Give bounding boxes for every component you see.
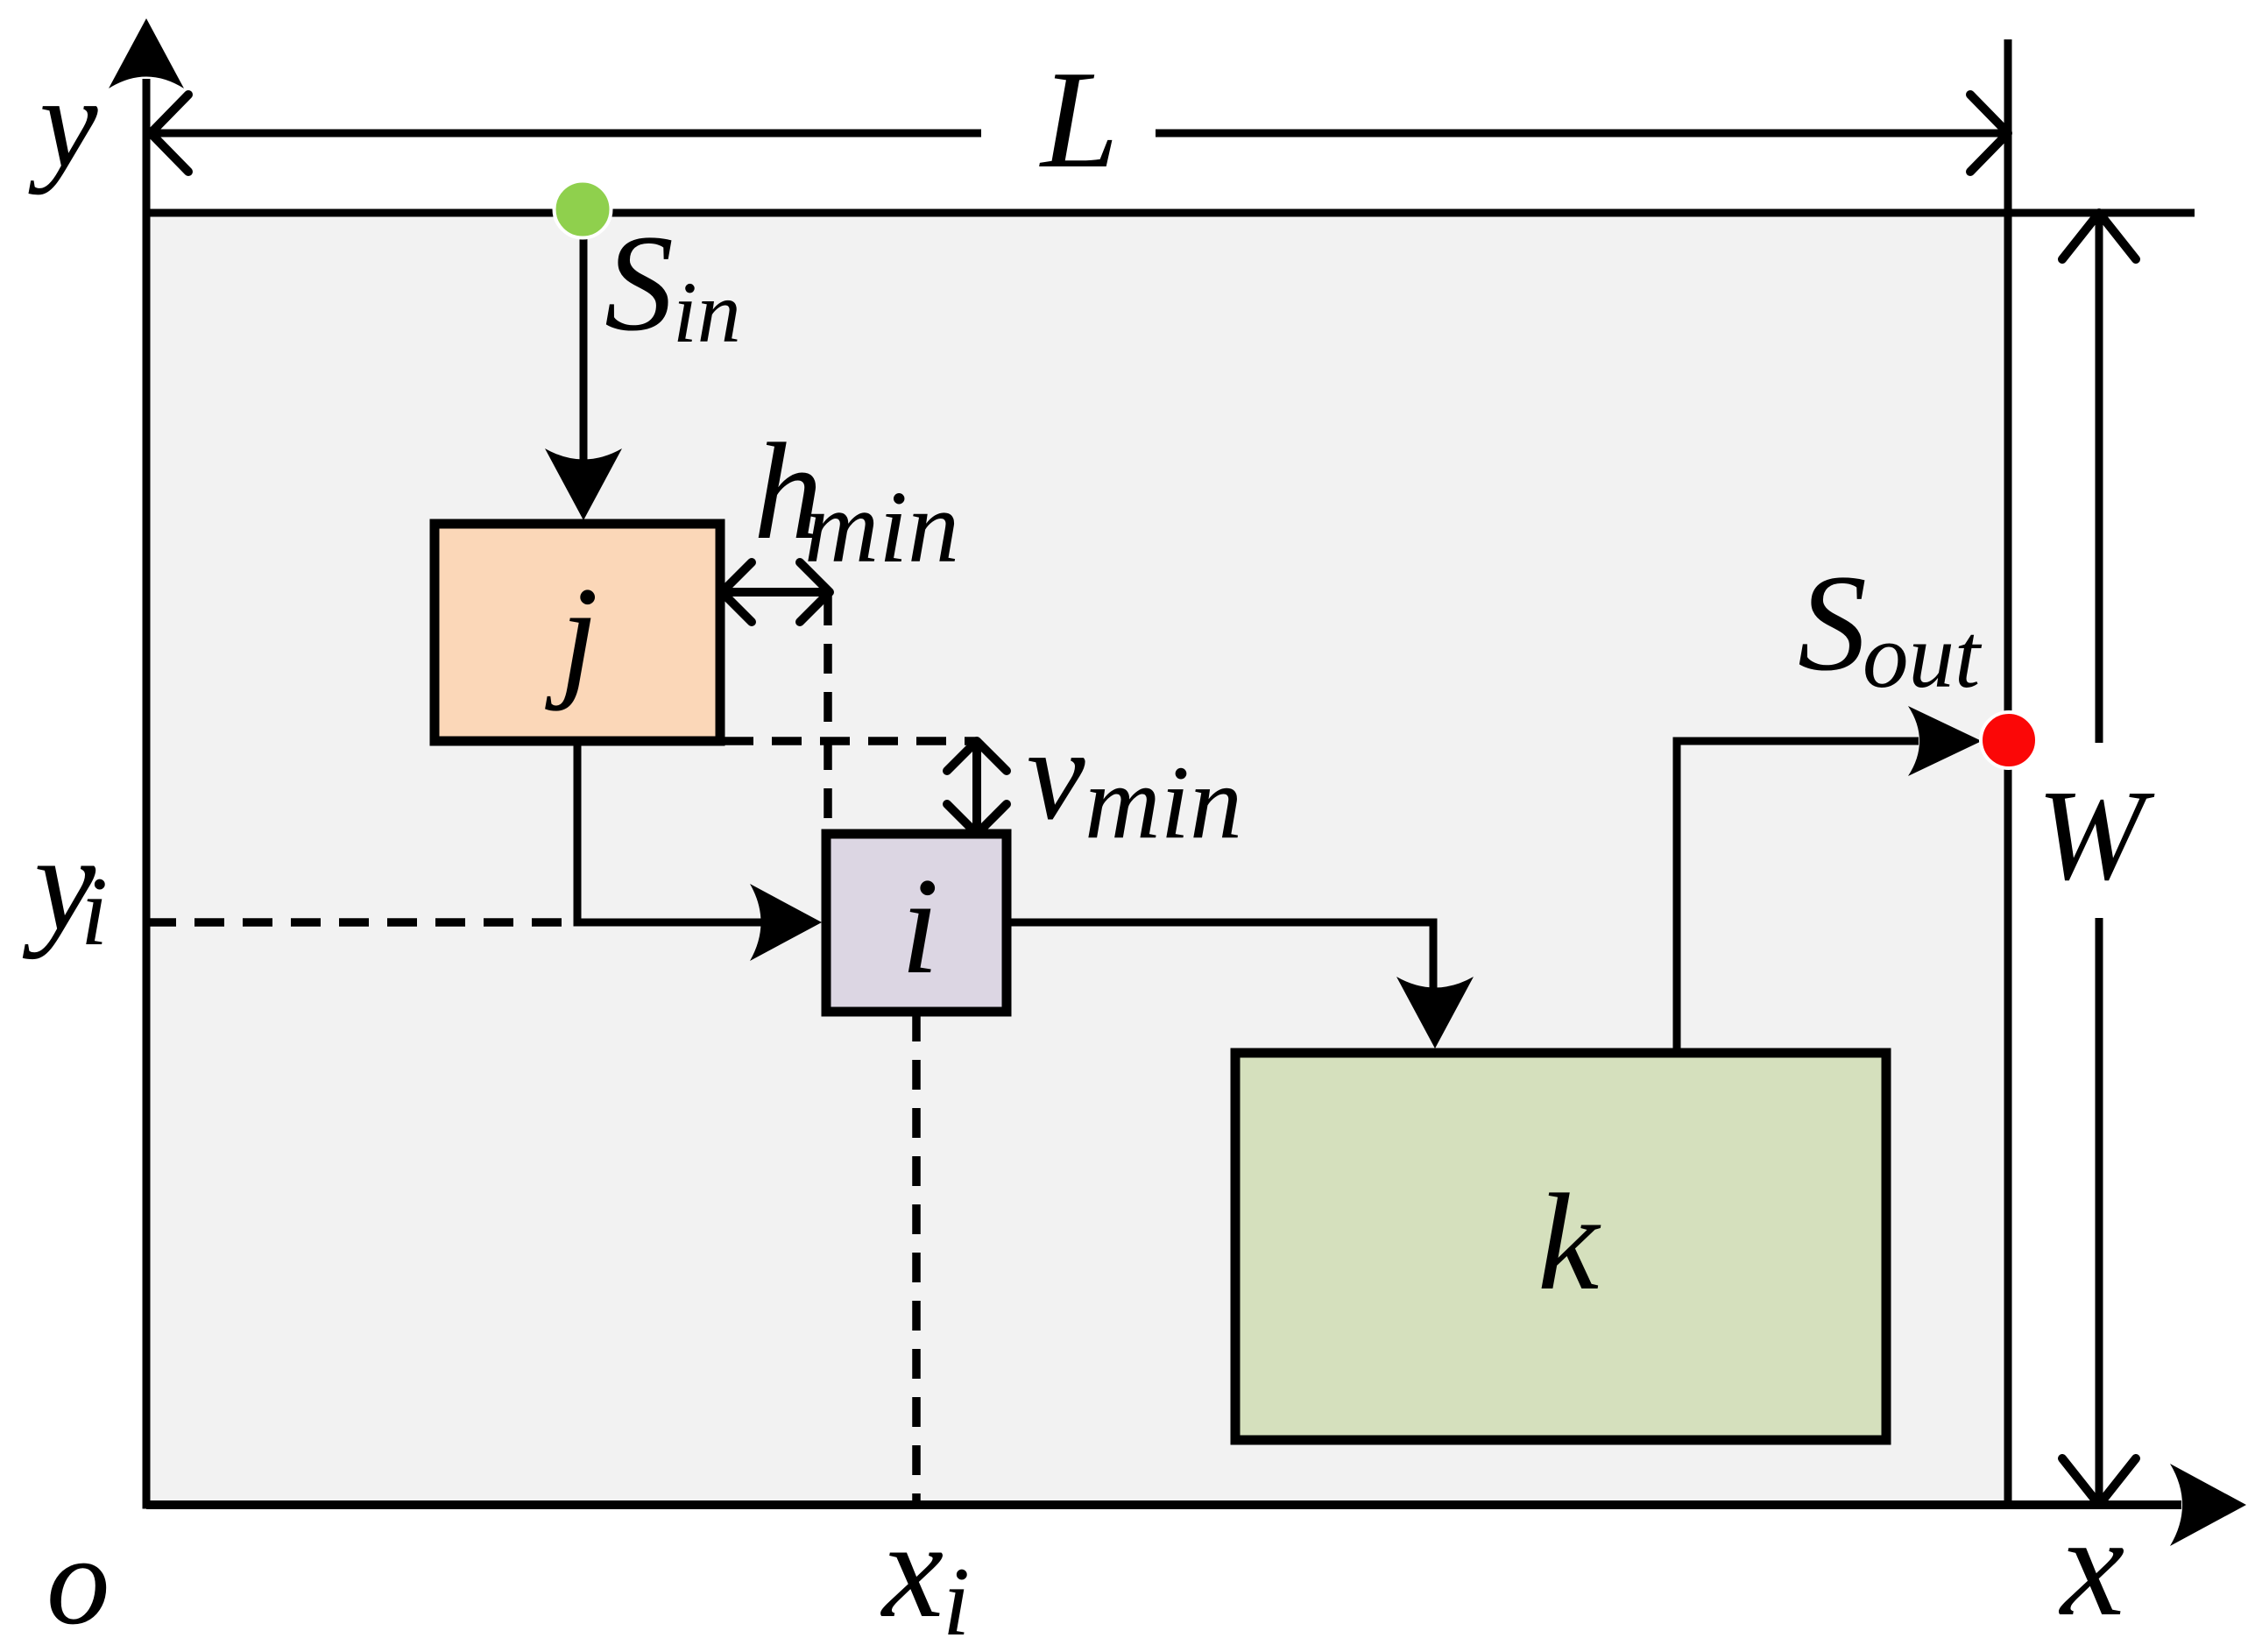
svg-text:out: out	[1863, 604, 1983, 707]
W dimension line	[2062, 213, 2136, 1505]
svg-text:i: i	[81, 858, 108, 966]
wire box j to box i	[577, 741, 822, 961]
facility boundary rectangle	[146, 213, 2008, 1505]
h_min label	[753, 415, 959, 584]
wire box k to S_out	[1677, 706, 1982, 1053]
dashed horizontal line from box j bottom to v_min	[724, 737, 977, 745]
svg-text:S: S	[1798, 547, 1867, 700]
L dimension line	[151, 95, 2008, 172]
svg-text:o: o	[46, 1511, 110, 1651]
svg-text:y: y	[28, 50, 98, 195]
svg-text:i: i	[901, 850, 939, 1003]
y_i dashed line	[146, 918, 577, 927]
svg-text:x: x	[2058, 1486, 2124, 1646]
svg-text:v: v	[1027, 702, 1085, 847]
x_i dashed line	[912, 1012, 921, 1505]
S_out label	[1798, 547, 1983, 707]
svg-text:S: S	[604, 207, 674, 360]
x_i label	[880, 1493, 970, 1652]
top edge extension line (right of rectangle)	[2008, 209, 2195, 217]
output point S_out (red dot)	[1981, 712, 2037, 768]
svg-text:k: k	[1537, 1166, 1601, 1319]
svg-text:in: in	[673, 264, 741, 361]
input point S_in (green dot)	[555, 181, 611, 238]
right edge extension line (above rectangle)	[2004, 39, 2012, 213]
box j	[435, 524, 720, 741]
svg-text:W: W	[2037, 764, 2155, 907]
box i	[826, 834, 1007, 1012]
wire S_in to box j	[545, 211, 622, 520]
x-axis	[146, 1464, 2246, 1546]
y-axis	[109, 18, 184, 1505]
box k	[1235, 1053, 1886, 1440]
svg-text:i: i	[943, 1548, 970, 1652]
svg-text:x: x	[880, 1493, 944, 1647]
h_min dimension arrow	[722, 562, 830, 622]
svg-text:min: min	[1085, 744, 1242, 860]
dashed vertical line from h_min to box i	[824, 596, 832, 830]
S_in label	[604, 207, 741, 361]
svg-text:L: L	[1039, 41, 1119, 197]
v_min dimension arrow	[947, 741, 1007, 834]
wire box i to box k	[1007, 922, 1474, 1048]
svg-text:min: min	[804, 469, 959, 584]
v_min label	[1027, 702, 1242, 860]
y_i label	[22, 807, 108, 966]
